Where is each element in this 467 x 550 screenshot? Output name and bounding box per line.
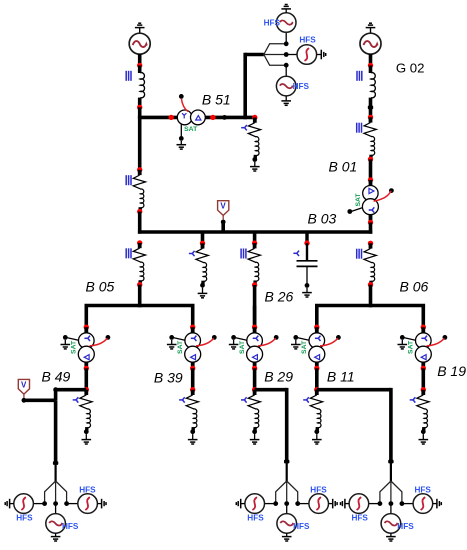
- svg-text:HFS: HFS: [79, 486, 96, 495]
- node (red) B01 secondary: [368, 220, 373, 225]
- ground (left of cluster 1): [10, 503, 14, 505]
- breakout fan (cluster 2): [276, 481, 298, 504]
- capacitor bank C1: [293, 251, 299, 256]
- node (red) B11 primary: [314, 325, 319, 330]
- node (red) B11 secondary: [314, 366, 319, 371]
- ground (below cluster 1): [55, 533, 57, 536]
- series RL branch (B03-B26 feeder): [248, 243, 260, 285]
- HFS source HFS1 (top): [276, 13, 296, 33]
- wire: [369, 159, 373, 180]
- wire to HFS (left, cluster 2): [265, 503, 276, 505]
- transformer T-B01 (Delta-Y): [362, 180, 378, 223]
- tap dot B29: [274, 335, 279, 340]
- neutral wire B19: [404, 338, 415, 340]
- inductor LG: [371, 73, 376, 98]
- wire to HFS (bottom, cluster 2): [286, 504, 288, 514]
- svg-text:B 11: B 11: [327, 369, 355, 385]
- node (red) B29 secondary: [252, 366, 257, 371]
- ground (B19 neutral): [401, 340, 403, 345]
- tap dot B39: [212, 335, 217, 340]
- neutral dot B19: [400, 335, 405, 340]
- node (red) bus B11: [314, 387, 319, 392]
- bus B06: [315, 304, 425, 308]
- breakout fan (3-phase): [264, 44, 284, 65]
- wire (B39 secondary): [191, 368, 195, 389]
- phase C dot: [284, 63, 289, 68]
- wire to HFS (left, cluster 1): [33, 503, 44, 505]
- bus B11 east: [317, 388, 391, 392]
- wire (B29 primary): [253, 306, 257, 328]
- load branch (B03 shunt load): [189, 251, 195, 256]
- svg-text:HFS: HFS: [299, 35, 316, 44]
- svg-text:HFS: HFS: [62, 522, 79, 531]
- wire (B19 secondary): [421, 368, 425, 389]
- svg-text:B 51: B 51: [202, 91, 231, 107]
- phase C dot: [400, 501, 405, 506]
- wire: [138, 98, 142, 108]
- red tap curve B49: [90, 338, 108, 346]
- neutral dot B11: [293, 335, 298, 340]
- node (red) B39 primary: [190, 325, 195, 330]
- wire (B29 secondary): [253, 368, 257, 389]
- svg-text:B 49: B 49: [42, 369, 71, 385]
- svg-text:B 01: B 01: [329, 158, 358, 174]
- node capacitor: [305, 283, 310, 288]
- 3-phase marker: [241, 249, 246, 259]
- transformer T51 (Y-Delta): [177, 110, 205, 125]
- svg-text:G 02: G 02: [396, 60, 425, 75]
- wire to HFS (right, cluster 2): [298, 503, 309, 505]
- wire (HFS bus corner): [245, 53, 264, 57]
- node (red): [252, 240, 257, 245]
- wire (B26 feeder): [253, 285, 257, 327]
- neutral wire below B51: [180, 124, 182, 137]
- 3-phase marker: [357, 249, 362, 259]
- node (red) B49 primary: [84, 325, 89, 330]
- phase B dot: [284, 501, 289, 506]
- svg-text:B 03: B 03: [308, 210, 337, 226]
- wire (B11 primary): [315, 306, 319, 328]
- wire to HFS1: [285, 33, 287, 44]
- transformer T-B11 (Y-Delta): [309, 327, 325, 368]
- load branch (B19): [410, 397, 416, 402]
- node (red): [137, 240, 142, 245]
- phase A dot: [273, 501, 278, 506]
- node (red) B39 secondary: [190, 366, 195, 371]
- wire: [138, 54, 142, 67]
- node V1: [221, 220, 226, 225]
- wire to HFS3: [285, 65, 287, 76]
- ground (capacitor): [306, 288, 308, 293]
- ground (left of cluster 3): [345, 503, 349, 505]
- ground (below HFS3): [285, 96, 287, 101]
- node (red): [368, 157, 373, 162]
- node (red) B19 primary: [421, 325, 426, 330]
- 3-phase marker: [126, 248, 131, 258]
- inductor L1: [140, 73, 145, 98]
- voltmeter V1: [218, 201, 229, 216]
- ground (above HFS1): [285, 9, 287, 13]
- bus B49 west: [56, 388, 87, 392]
- load branch (B11): [303, 397, 309, 402]
- red tap curve B51: [181, 99, 188, 112]
- ground (B29 neutral): [233, 340, 235, 345]
- voltmeter V1 stem: [222, 215, 224, 219]
- red tap curve B39: [196, 338, 214, 346]
- load branch (B51 bus shunt load): [241, 125, 247, 130]
- HFS source (bottom, cluster 1): [46, 514, 66, 534]
- HFS source (bottom, cluster 3): [381, 514, 401, 534]
- wire (B39 primary): [191, 306, 195, 328]
- phase C dot: [295, 501, 300, 506]
- svg-text:SAT: SAT: [301, 340, 308, 354]
- node (red) B29 primary: [252, 325, 257, 330]
- neutral dot: [179, 136, 184, 141]
- tap dot B11: [336, 335, 341, 340]
- neutral wire B11: [298, 338, 309, 340]
- source S1 (top-left AC source): [129, 33, 150, 54]
- wire: [138, 212, 142, 234]
- node (red): [137, 167, 142, 172]
- breakout fan (cluster 3): [380, 481, 402, 504]
- wire: [369, 65, 373, 73]
- phase B dot: [389, 501, 394, 506]
- wire to HFS (right, cluster 1): [67, 503, 78, 505]
- wire: [369, 223, 373, 234]
- voltmeter V2: [18, 379, 29, 394]
- wire: [253, 232, 257, 243]
- node (red) B51 secondary: [210, 115, 215, 120]
- ground (B51 neutral): [180, 141, 182, 145]
- ground (below cluster 2): [286, 533, 288, 536]
- wire: [54, 390, 58, 401]
- junction dot: [53, 387, 58, 392]
- svg-text:B 26: B 26: [265, 289, 294, 305]
- svg-text:SAT: SAT: [177, 340, 184, 354]
- ground (top of source S1): [135, 23, 145, 27]
- node (red): [137, 105, 142, 110]
- series RL branch (G02 impedance): [364, 117, 376, 159]
- node V2: [22, 398, 27, 403]
- svg-text:B 39: B 39: [154, 369, 183, 385]
- node (red) bus B49: [84, 387, 89, 392]
- breaker node: [388, 460, 393, 464]
- bus B29 east: [255, 388, 287, 392]
- neutral dot B29: [231, 335, 236, 340]
- load branch (B39): [179, 397, 185, 402]
- bus B05: [85, 304, 195, 308]
- svg-text:B 05: B 05: [86, 279, 115, 295]
- wire (riser to cluster 1): [54, 400, 58, 463]
- svg-text:B 29: B 29: [264, 369, 293, 385]
- node (red) bus B19: [421, 387, 426, 392]
- phase A dot: [284, 41, 289, 46]
- phase B dot: [284, 52, 289, 57]
- HFS source HFS3 (bottom): [276, 76, 296, 96]
- wire (left feeder down): [138, 107, 142, 170]
- ground (top of G02): [366, 23, 376, 27]
- transformer T-B19 (Y-Delta): [415, 327, 431, 368]
- wire to HFS (right, cluster 3): [402, 503, 413, 505]
- HFS source (left, cluster 2): [245, 494, 265, 514]
- red tap curve B29: [258, 338, 276, 346]
- node (red) B51 primary: [169, 115, 174, 120]
- node (red): [368, 241, 373, 246]
- red tap curve B19: [427, 338, 445, 346]
- svg-text:HFS: HFS: [310, 486, 327, 495]
- wire: [138, 285, 142, 308]
- tap dot B49: [106, 335, 111, 340]
- node (red): [137, 209, 142, 214]
- wire (riser to cluster 3): [389, 388, 393, 462]
- node (red) S1 output: [137, 63, 142, 68]
- tap dot B19: [443, 335, 448, 340]
- ground (B49 neutral): [64, 340, 66, 345]
- ground (B11 neutral): [295, 340, 297, 345]
- 3-phase marker: [357, 71, 362, 81]
- node (red) bus B39: [190, 387, 195, 392]
- ground (B39 neutral): [171, 340, 173, 345]
- wire (to transformer B51): [138, 116, 178, 120]
- svg-text:HFS: HFS: [293, 82, 310, 91]
- neutral wire B39: [174, 338, 185, 340]
- svg-text:SAT: SAT: [71, 340, 78, 354]
- node (red): [137, 282, 142, 287]
- neutral dot B49: [63, 335, 68, 340]
- svg-text:HFS: HFS: [293, 522, 310, 531]
- red tap curve B01: [374, 191, 391, 201]
- wire: [201, 232, 205, 243]
- voltmeter V2 stem: [23, 394, 25, 398]
- 3-phase marker: [126, 71, 131, 81]
- HFS source (left, cluster 1): [14, 494, 34, 514]
- svg-text:SAT: SAT: [239, 340, 246, 354]
- node (red): [368, 115, 373, 120]
- HFS source (right, cluster 3): [413, 494, 433, 514]
- load branch (B29): [241, 397, 247, 402]
- 3-phase marker: [357, 123, 362, 133]
- node B51 bus dot: [222, 115, 227, 120]
- node (red): [368, 63, 373, 68]
- phase A dot: [378, 501, 383, 506]
- HFS source (right, cluster 2): [309, 494, 329, 514]
- wire: [305, 232, 308, 243]
- transformer T-B49 (Y-Delta): [78, 327, 94, 368]
- wire to HFS (left, cluster 3): [369, 503, 380, 505]
- svg-text:HFS: HFS: [247, 514, 264, 523]
- neutral dot B39: [169, 335, 174, 340]
- wire (to voltmeter V2): [24, 398, 56, 402]
- wire (riser to cluster 2): [285, 388, 289, 462]
- node (red) B01 primary: [368, 177, 373, 182]
- svg-text:SAT: SAT: [355, 193, 362, 207]
- HFS source (right, cluster 1): [78, 494, 98, 514]
- transformer T-B29 (Y-Delta): [247, 327, 263, 368]
- svg-text:B 19: B 19: [437, 363, 466, 379]
- tap dot above B51: [179, 94, 184, 99]
- neutral wire B49: [67, 338, 78, 340]
- breaker node: [53, 461, 58, 465]
- ground (right of cluster 2): [329, 503, 333, 505]
- wire: [205, 116, 225, 120]
- ground (right of cluster 3): [433, 503, 437, 505]
- wire to HFS2: [286, 54, 297, 56]
- ground (right of cluster 1): [97, 503, 101, 505]
- ground (right of HFS2): [317, 54, 322, 56]
- svg-text:SAT: SAT: [408, 340, 415, 354]
- ground (below cluster 3): [390, 533, 392, 536]
- svg-text:HFS: HFS: [264, 19, 281, 28]
- wire: [221, 222, 225, 232]
- wire: [138, 65, 142, 73]
- node (red) B49 secondary: [84, 366, 89, 371]
- load branch (B49): [73, 397, 79, 402]
- red tap curve B11: [320, 338, 338, 346]
- transformer T-B39 (Y-Delta): [185, 327, 201, 368]
- svg-text:HFS: HFS: [352, 514, 369, 523]
- wire (B19 primary): [421, 306, 425, 328]
- svg-text:HFS: HFS: [415, 486, 432, 495]
- neutral wire B29: [236, 338, 247, 340]
- wire to HFS (bottom, cluster 1): [55, 504, 57, 514]
- svg-text:SAT: SAT: [184, 126, 198, 133]
- node (red) B19 secondary: [421, 366, 426, 371]
- wire (B49 secondary): [85, 368, 89, 389]
- wire (B51 bus east): [225, 116, 257, 120]
- phase C dot: [64, 501, 69, 506]
- wire: [369, 54, 373, 67]
- node (red): [368, 282, 373, 287]
- svg-text:HFS: HFS: [397, 522, 414, 531]
- HFS source HFS2 (right): [297, 45, 317, 65]
- neutral wire B01: [352, 208, 363, 212]
- bus B03: [138, 230, 372, 234]
- svg-text:B 06: B 06: [400, 279, 429, 295]
- node (red): [200, 241, 205, 246]
- series RL branch (left feeder impedance): [133, 170, 145, 212]
- node (red) bus B29: [252, 387, 257, 392]
- svg-text:HFS: HFS: [16, 514, 33, 523]
- wire to HFS (bottom, cluster 3): [390, 504, 392, 514]
- 3-phase marker: [126, 175, 131, 185]
- series RL branch (B03-B05 feeder): [133, 243, 145, 285]
- HFS source (bottom, cluster 2): [277, 514, 297, 534]
- wire (B11 secondary): [315, 368, 319, 389]
- breaker node: [368, 106, 373, 110]
- node (red): [252, 115, 257, 120]
- wire: [369, 98, 373, 118]
- breaker node: [284, 460, 289, 464]
- source G02: [360, 33, 381, 54]
- HFS source (left, cluster 3): [349, 494, 369, 514]
- wire: [369, 285, 373, 308]
- ground (left of cluster 2): [241, 503, 245, 505]
- series RL branch (B03-B06 feeder): [364, 243, 376, 285]
- tap dot right of B01: [389, 188, 394, 193]
- node (red): [252, 282, 257, 287]
- wire (B49 primary): [85, 306, 89, 328]
- neutral dot left of B01: [347, 209, 352, 214]
- breakout fan (cluster 1): [45, 481, 67, 504]
- phase B dot: [53, 501, 58, 506]
- phase A dot: [42, 501, 47, 506]
